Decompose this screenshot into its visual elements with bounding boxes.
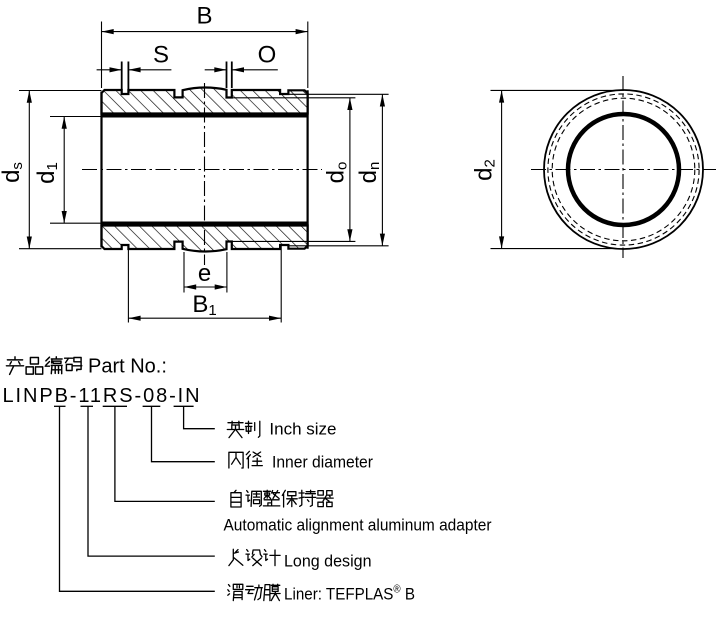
svg-text:LINPB-11RS-08-IN: LINPB-11RS-08-IN xyxy=(3,385,202,407)
dimension O extension lines xyxy=(226,62,228,89)
svg-text:Inch size: Inch size xyxy=(269,419,336,438)
leader from IN to Inch size xyxy=(184,406,215,428)
row 1 chinese: 英制 xyxy=(227,421,259,437)
svg-text:O: O xyxy=(258,41,277,68)
underline under RS xyxy=(103,405,127,407)
svg-text:Long design: Long design xyxy=(284,552,372,571)
svg-text:e: e xyxy=(198,260,211,287)
svg-text:Automatic alignment aluminum a: Automatic alignment aluminum adapter xyxy=(224,516,492,535)
dimension d1 line xyxy=(63,117,65,224)
body right edge xyxy=(307,90,309,248)
underline under 11 xyxy=(81,405,94,407)
right view vertical centerline xyxy=(622,76,624,258)
dimension d2 line xyxy=(501,90,503,248)
underline under 08 xyxy=(143,405,161,407)
dimension ds extension lines xyxy=(19,90,102,92)
dimension d1 extension lines xyxy=(50,116,102,118)
bushing bottom band (aluminum adapter, hatched) xyxy=(102,226,308,252)
leader from 11 to Long design xyxy=(88,406,215,556)
horizontal centerline xyxy=(82,169,322,171)
dimension S extension lines (slot walls extended) xyxy=(121,62,123,91)
right view dashed circle outer xyxy=(548,94,699,245)
leader from 08 to Inner diameter xyxy=(152,406,215,461)
dimension dn extension lines xyxy=(288,93,388,95)
dimension d2 extension lines xyxy=(491,89,617,91)
body left edge xyxy=(100,92,102,248)
dimension e line with arrows xyxy=(184,286,227,288)
liner top thick line xyxy=(102,114,308,118)
svg-text:Inner diameter: Inner diameter xyxy=(272,453,373,472)
heading chinese: 产品编码 xyxy=(6,357,81,375)
underline under B xyxy=(54,405,66,407)
right view liner thick circle xyxy=(568,114,679,225)
dimension B extension line left xyxy=(101,22,103,89)
dimension do line xyxy=(349,98,351,242)
vertical centerline xyxy=(204,83,206,265)
row 5 chinese: 滑动膜 xyxy=(228,584,280,600)
leader from B to Liner xyxy=(60,406,215,591)
dimension S line with arrows xyxy=(97,69,122,71)
dimension B1 extension lines xyxy=(127,246,129,323)
svg-text:B: B xyxy=(196,3,212,30)
bushing top band (aluminum adapter, hatched) xyxy=(102,87,308,113)
dimension B line xyxy=(102,31,308,33)
svg-text:Part No.:: Part No.: xyxy=(88,356,167,378)
liner bottom thick line xyxy=(102,222,308,226)
dimension do extension lines xyxy=(232,97,356,99)
right view horizontal centerline xyxy=(531,169,716,171)
row 2 chinese: 内径 xyxy=(229,451,262,468)
dimension B1 line xyxy=(128,317,281,319)
row 3 chinese: 自调整保持器 xyxy=(231,490,333,507)
right view dashed circle inner xyxy=(552,98,695,241)
dimension dn line xyxy=(381,94,383,246)
right view outer circle xyxy=(544,90,703,249)
svg-text:S: S xyxy=(153,41,169,68)
underline under IN xyxy=(174,405,194,407)
row 4 chinese: 长设计 xyxy=(229,549,280,565)
dimension O line with arrows xyxy=(205,69,227,71)
leader from RS to adapter xyxy=(115,406,215,501)
dimension B extension line right xyxy=(307,22,309,89)
dimension ds line xyxy=(28,91,30,249)
dimension e extension lines xyxy=(183,252,185,293)
